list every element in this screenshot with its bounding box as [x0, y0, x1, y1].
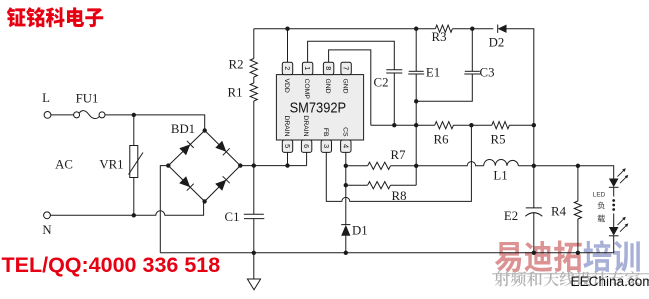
svg-text:DRAIN: DRAIN [302, 115, 309, 136]
pin 2 VDD [282, 62, 292, 74]
svg-text:GND: GND [342, 79, 349, 94]
svg-text:1: 1 [303, 66, 312, 70]
wire FB pin3 net [326, 125, 471, 201]
svg-text:5: 5 [283, 144, 292, 148]
LED arrows bottom [618, 219, 627, 232]
svg-text:D2: D2 [489, 36, 505, 50]
wire DRAIN pin5 [287, 152, 289, 165]
pin 3 FB [321, 140, 331, 152]
resistor R4 [577, 166, 579, 201]
svg-text:FB: FB [322, 128, 329, 137]
svg-text:3: 3 [322, 144, 331, 148]
capacitor C1 [253, 166, 255, 215]
LED D4 bottom [609, 227, 619, 236]
svg-text:N: N [42, 223, 51, 237]
svg-text:2: 2 [283, 66, 292, 70]
svg-text:SM7392P: SM7392P [290, 100, 347, 117]
wire IC-gnd rail with R6 R5 [371, 124, 534, 126]
svg-text:D1: D1 [352, 224, 368, 238]
svg-text:FU1: FU1 [76, 92, 99, 106]
svg-text:R2: R2 [229, 58, 244, 72]
svg-text:LED: LED [593, 192, 606, 199]
capacitor C3 [471, 29, 473, 72]
resistor R6 [435, 122, 454, 129]
wire top rail [254, 29, 534, 253]
svg-text:E2: E2 [504, 209, 518, 223]
svg-text:DRAIN: DRAIN [283, 115, 290, 136]
terminal N [44, 212, 51, 219]
capacitor E2 [526, 207, 542, 209]
op-amp U1 SM7392P body [276, 75, 363, 140]
svg-text:AC: AC [55, 158, 73, 172]
wire CS pin4 to D1 [345, 152, 347, 224]
svg-text:CS: CS [341, 127, 348, 137]
bridge rectifier BD1 [168, 131, 240, 202]
pin 6 DRAIN [301, 140, 311, 152]
capacitor C2 [386, 69, 402, 71]
fuse FU1 [74, 112, 80, 118]
LED arrows top [618, 170, 627, 183]
watermark text peixun [583, 240, 611, 272]
terminal L [44, 112, 51, 119]
svg-text:VR1: VR1 [99, 158, 123, 172]
watermark text yiditu [495, 242, 521, 272]
svg-text:R1: R1 [228, 86, 243, 100]
node junction VR1 bottom [132, 213, 136, 217]
svg-text:TEL/QQ:4000 336 518: TEL/QQ:4000 336 518 [2, 253, 221, 277]
svg-text:EEChina.com: EEChina.com [571, 274, 649, 289]
resistor R1 [253, 77, 255, 83]
wire DRAIN pin6 [306, 152, 308, 165]
resistor R7 [346, 165, 368, 167]
svg-text:E1: E1 [426, 66, 440, 80]
resistor R5 [492, 122, 510, 129]
resistor R2 [253, 29, 255, 59]
pin 5 DRAIN [282, 140, 292, 152]
svg-text:BD1: BD1 [171, 122, 195, 136]
wire COMP pin1 to C2 [308, 41, 395, 70]
diode D1 [341, 224, 350, 226]
LED load char 1 [598, 202, 605, 210]
wire output line with hop [416, 162, 484, 166]
watermark gray slogan [494, 271, 510, 286]
dotted continuation [612, 199, 615, 202]
wire ground rail [160, 252, 613, 254]
capacitor E1 [415, 29, 417, 72]
wire L to fuse [51, 114, 74, 116]
pin 7 GND [341, 62, 351, 74]
resistor R8 [346, 184, 368, 186]
ground symbol [247, 253, 260, 290]
varistor VR1 [133, 115, 135, 146]
inductor L1 [484, 160, 519, 166]
wire L1 to LED branch [518, 166, 613, 179]
watermark divider line [492, 273, 649, 275]
wire GND pin8 to gnd rail [329, 50, 371, 125]
svg-text:R5: R5 [491, 133, 506, 147]
svg-text:4: 4 [341, 144, 350, 148]
svg-text:C3: C3 [480, 66, 495, 80]
node junction VR1 top [132, 113, 136, 117]
svg-text:R4: R4 [551, 205, 567, 219]
wire bridge left vertex to ground rail [160, 166, 168, 253]
svg-text:R7: R7 [391, 148, 407, 162]
svg-text:R8: R8 [392, 189, 407, 203]
svg-text:R6: R6 [434, 133, 450, 147]
diode D2 [498, 25, 507, 33]
wire VDD pin2 to top rail [287, 29, 289, 63]
svg-text:R3: R3 [432, 30, 447, 44]
svg-text:GND: GND [324, 79, 331, 94]
pin 1 COMP [302, 62, 312, 74]
pin 4 CS [341, 140, 351, 152]
svg-text:COMP: COMP [303, 79, 310, 100]
red logo text top-left [7, 7, 26, 27]
svg-text:C1: C1 [225, 210, 240, 224]
wire DC+ rail [240, 165, 306, 167]
wire N to bridge bottom (hop over dc- line) [50, 201, 203, 215]
LED D3 top [609, 179, 619, 188]
svg-text:C2: C2 [374, 75, 389, 89]
svg-text:6: 6 [302, 144, 311, 148]
svg-text:VDD: VDD [283, 79, 290, 93]
pin 8 GND [323, 62, 333, 74]
svg-text:7: 7 [342, 66, 351, 70]
svg-text:8: 8 [324, 66, 333, 70]
svg-text:L1: L1 [493, 169, 507, 183]
resistor R3 [435, 25, 452, 32]
wire fuse to bridge top [105, 115, 205, 131]
svg-text:L: L [42, 91, 50, 105]
LED load char 2 [598, 215, 606, 223]
